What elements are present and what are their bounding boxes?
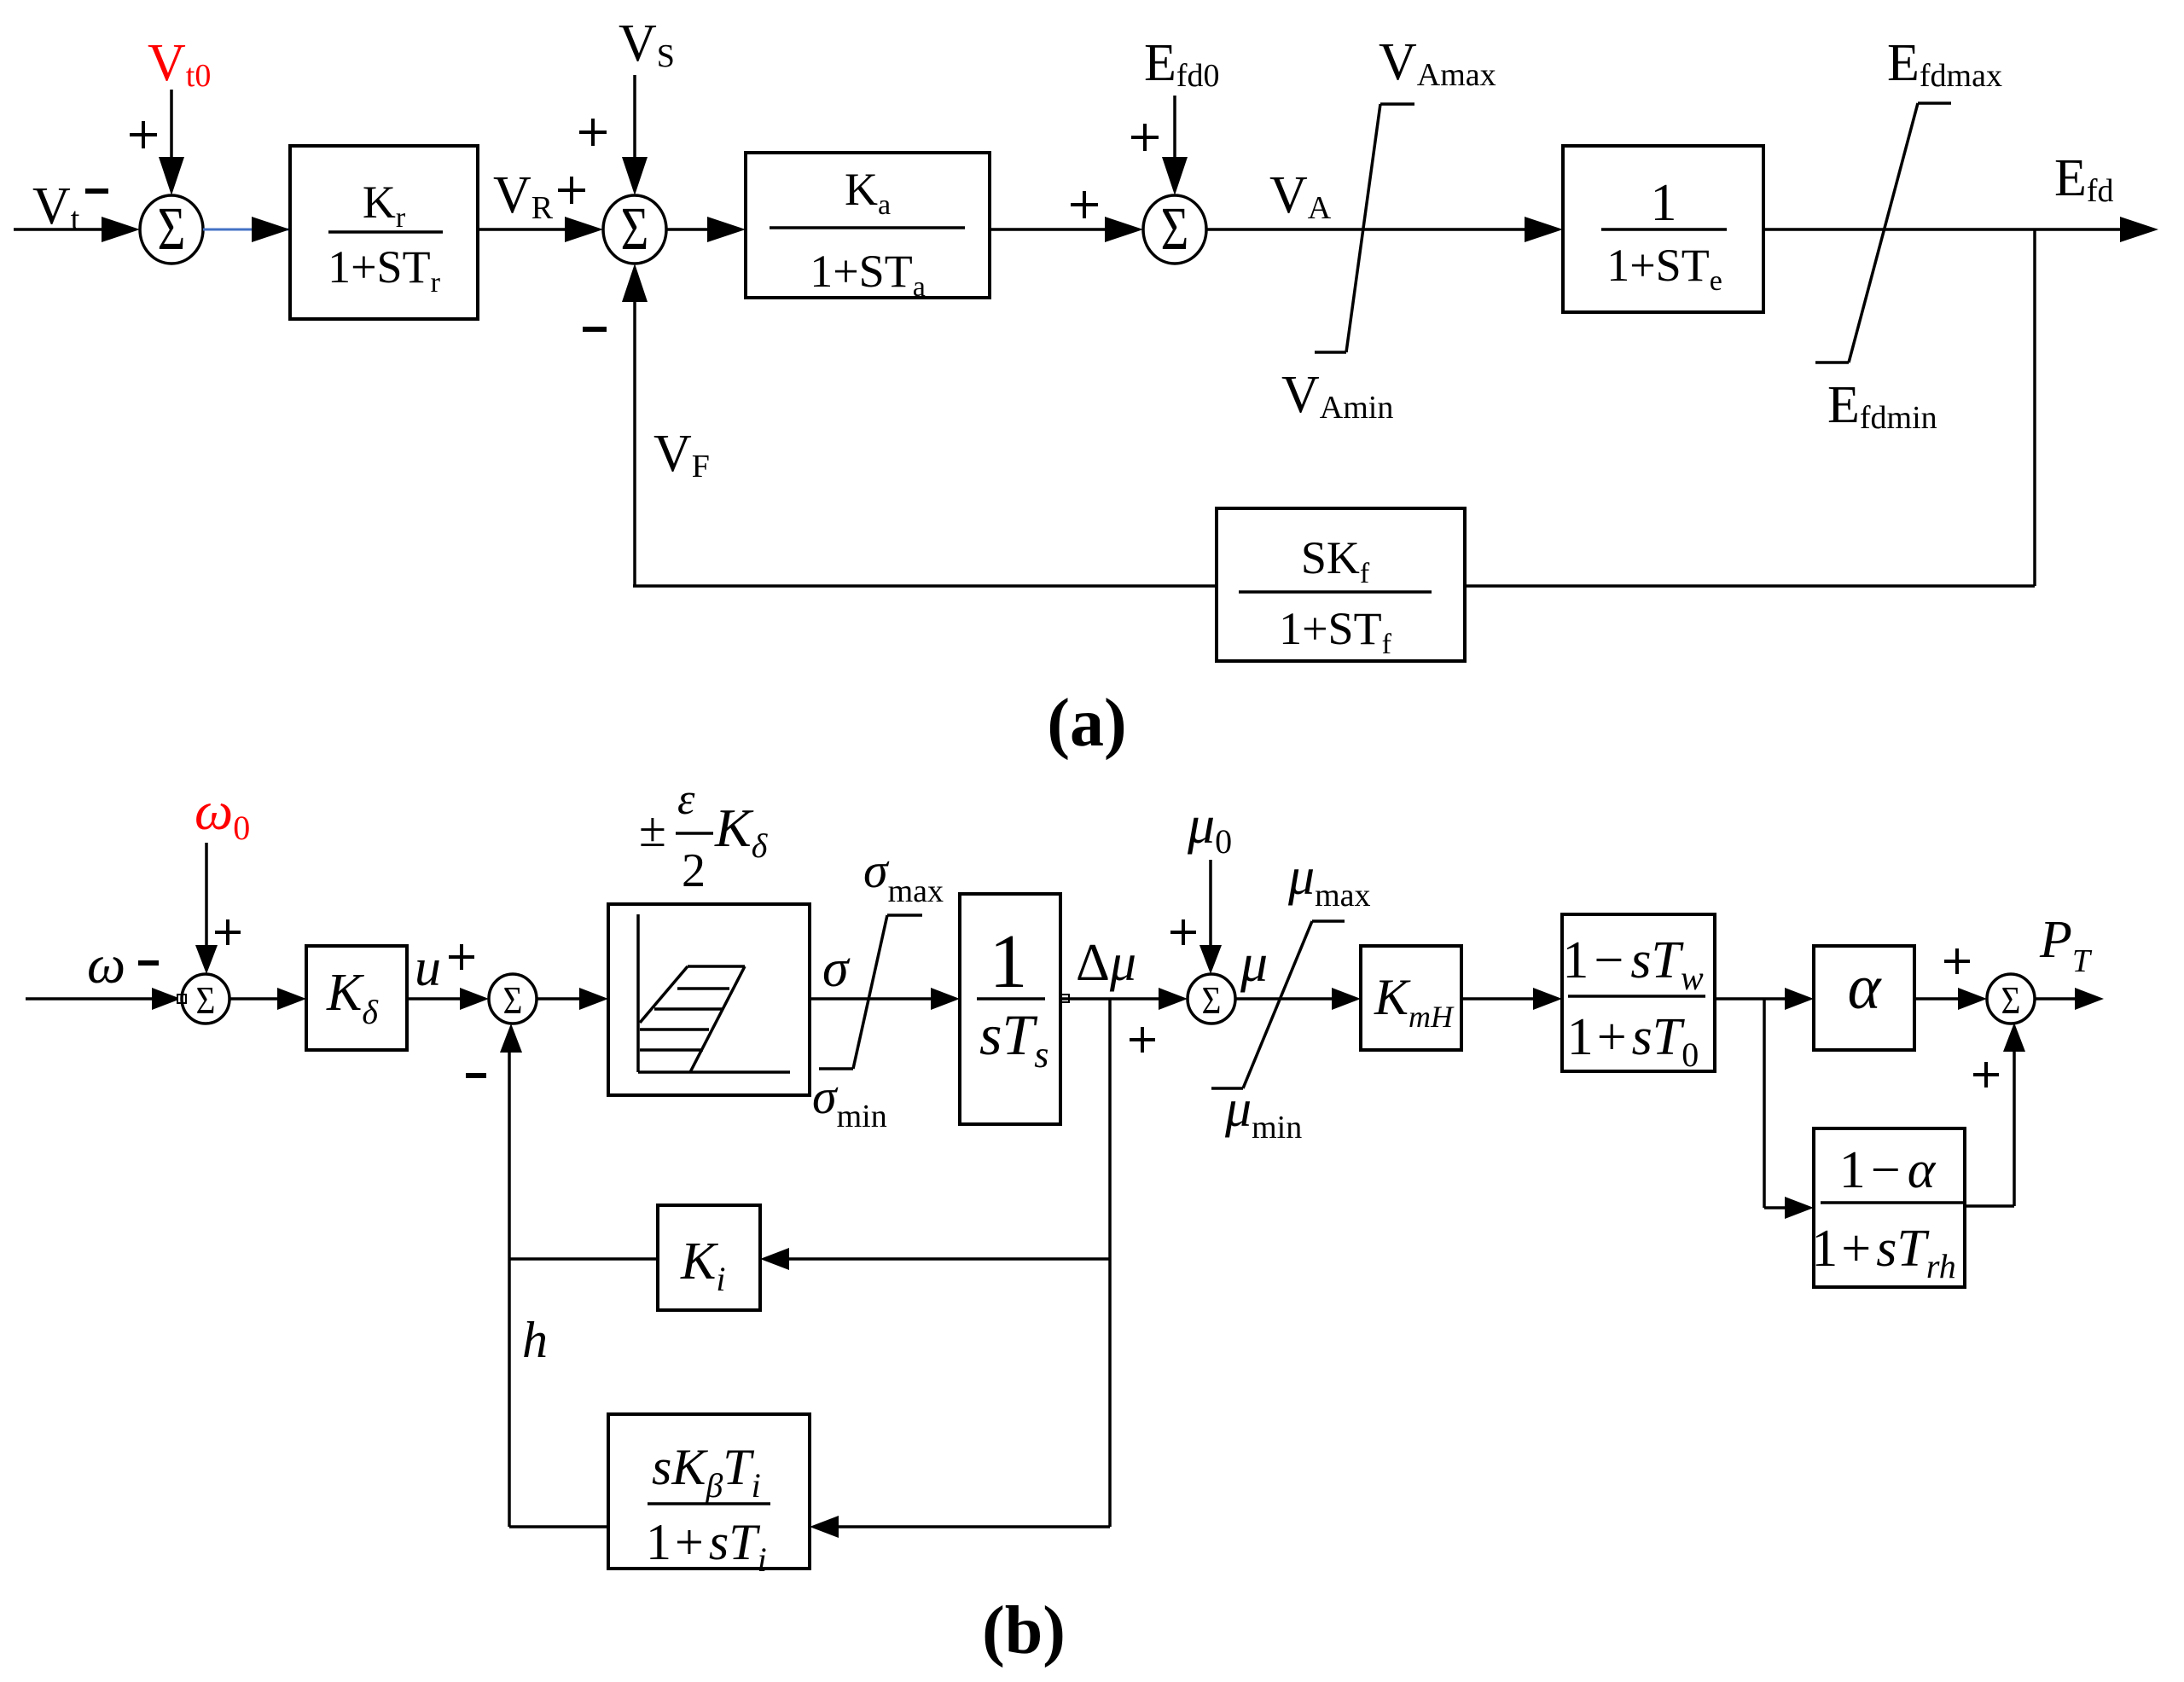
wire KmH to Tw block (1461, 988, 1562, 1010)
node label u (415, 939, 441, 997)
sign minus (h feedback input) (466, 1073, 486, 1078)
sign plus (omega0 input) (215, 919, 241, 945)
svg-text:Σ: Σ (196, 979, 216, 1023)
svg-text:α: α (1848, 953, 1883, 1023)
svg-text:μ: μ (1240, 932, 1268, 993)
sign plus (delta-mu input) (1130, 1027, 1155, 1053)
wire output PT (2035, 988, 2104, 1010)
summer S3b (1188, 974, 1235, 1024)
wire takeoff down from Efd line (2033, 229, 2036, 586)
limiter Efd (saturation symbol) (1815, 103, 1951, 362)
block deadband quantizer (608, 904, 810, 1095)
wire Vt0 into S1 (159, 90, 184, 195)
wire sKbTi output to left vertical (509, 1525, 608, 1528)
sign minus (Vt input) (85, 188, 108, 194)
block 1/(1+STe) (1563, 146, 1763, 312)
svg-text:1+sT0: 1+sT0 (1567, 1008, 1699, 1074)
svg-text:Σ: Σ (2001, 979, 2021, 1023)
wire left vertical feedback up into S2b (500, 1024, 522, 1527)
sign minus (omega input) (138, 960, 159, 966)
wire 1/(1+STe) to output Efd (1763, 217, 2158, 242)
svg-text:h: h (522, 1312, 548, 1368)
wire Ka to S3 (990, 217, 1143, 242)
node label mu max (1287, 848, 1371, 913)
node label VAmin (1281, 366, 1393, 426)
node label sigma max (863, 843, 944, 909)
svg-text:1: 1 (1651, 174, 1677, 232)
wire S2 to block Ka (666, 217, 746, 242)
wire lower feedback line from takeoff (810, 1516, 1110, 1538)
node label Efd (2054, 149, 2114, 209)
wire Tw block to alpha block (1715, 988, 1814, 1010)
wire Kr to S2, node VR (478, 217, 603, 242)
sign plus (mu0 input) (1170, 919, 1196, 945)
wire 1-alpha block to S4b (1965, 1023, 2025, 1206)
svg-text:σ: σ (822, 940, 851, 998)
svg-text:Σ: Σ (621, 194, 649, 262)
sign plus (Efd0 input) (1131, 124, 1159, 151)
node label omega0 (red) (195, 780, 250, 847)
limiter VA (saturation symbol) (1315, 104, 1414, 352)
node label VA (1269, 166, 1332, 226)
node label VR (493, 166, 554, 226)
block Ka/(1+STa) (746, 153, 990, 303)
node label PT (2039, 911, 2093, 979)
wire feedback left segment to VF corner (633, 584, 1217, 588)
block SKf/(1+STf) (1217, 508, 1465, 661)
label (a) (1047, 686, 1126, 761)
svg-text:Σ: Σ (1202, 979, 1222, 1023)
node label mu min (1224, 1080, 1302, 1145)
wire alpha to S4b (1914, 988, 1987, 1010)
wire Ki output to left vertical (509, 1257, 658, 1261)
block sKbTi/(1+sTi) (608, 1414, 810, 1579)
node label mu0 (1187, 794, 1232, 861)
block Ki (658, 1205, 760, 1310)
wire Efd0 into S3 (1162, 96, 1188, 195)
junction square after 1/sTs (1061, 995, 1069, 1002)
wire input Vt (14, 217, 140, 242)
block (1-alpha)/(1+sTrh) (1811, 1128, 1965, 1287)
block (1-sTw)/(1+sT0) (1562, 914, 1715, 1074)
node label Efdmin (1827, 376, 1937, 436)
svg-text:SKf: SKf (1301, 532, 1370, 589)
node label VS (619, 14, 675, 74)
wire VF feedback up into S2 (622, 264, 648, 586)
svg-text:1+STe: 1+STe (1606, 240, 1722, 297)
wire feedback right segment to SKf block (1465, 584, 2035, 588)
sign minus (VF feedback input) (583, 327, 607, 332)
sign plus (alpha output) (1944, 948, 1970, 974)
svg-text:Δμ: Δμ (1076, 934, 1136, 992)
svg-text:1: 1 (990, 919, 1028, 1004)
node label VAmax (1379, 33, 1496, 93)
svg-text:Σ: Σ (503, 979, 523, 1023)
svg-text:Σ: Σ (158, 194, 186, 262)
svg-text:1−α: 1−α (1839, 1141, 1937, 1199)
svg-text:2: 2 (682, 844, 706, 897)
svg-text:ω: ω (87, 934, 125, 995)
node label Vt0 (red) (148, 34, 211, 94)
sign plus (VR input) (558, 177, 585, 204)
svg-text:1+STa: 1+STa (810, 246, 926, 303)
wire S3b to KmH, node mu (1235, 988, 1361, 1010)
node label sigma min (812, 1069, 887, 1134)
wire S3 to block 1/(1+STe), node VA (1206, 217, 1563, 242)
limiter sigma (saturation symbol) (819, 915, 922, 1069)
junction square at S1b (177, 995, 186, 1003)
wire Kdelta to S2b, node u (408, 988, 489, 1010)
svg-text:1+STr: 1+STr (328, 241, 440, 299)
wire takeoff down to 1-alpha block (1764, 999, 1814, 1219)
block alpha (1814, 946, 1914, 1050)
node label Vt (32, 177, 80, 237)
node label h (522, 1312, 548, 1368)
node label VF (653, 425, 710, 484)
wire S2b to deadband block (537, 988, 608, 1010)
sign plus (Ka output into S3) (1071, 191, 1098, 218)
sign plus (Vt0 input) (130, 121, 157, 148)
wire S1b to block Kdelta (229, 988, 306, 1010)
wire deadband to 1/sTs, node sigma (810, 988, 960, 1010)
wire 1/sTs to S3b, node delta-mu (1060, 988, 1188, 1010)
wire Ki feedback line from takeoff (760, 1248, 1110, 1270)
node label sigma (822, 940, 851, 998)
sign plus (1-alpha feedback input) (1973, 1062, 1999, 1087)
limiter mu (saturation symbol) (1211, 921, 1345, 1088)
summer S1 (140, 194, 203, 264)
sign plus (VS input) (579, 119, 607, 146)
block Kdelta (306, 946, 407, 1050)
svg-text:Σ: Σ (1161, 194, 1189, 262)
block Kr/(1+STr) (290, 146, 478, 319)
wire omega0 into S1b (195, 843, 218, 974)
label (b) (982, 1593, 1066, 1668)
svg-text:ε: ε (677, 775, 695, 824)
node label delta-mu (1076, 934, 1136, 992)
label +-eps/2 Kdelta (639, 775, 769, 897)
svg-text:±: ± (639, 802, 666, 857)
node label mu (1240, 932, 1268, 993)
node label Efdmax (1887, 34, 2002, 94)
wire VS into S2 (622, 75, 648, 195)
wire takeoff down from delta-mu (1108, 999, 1112, 1527)
wire S1 to block Kr (blue) (203, 217, 290, 242)
node label omega (87, 934, 125, 995)
block KmH (1361, 946, 1461, 1050)
svg-text:(b): (b) (982, 1593, 1066, 1668)
wire input omega (26, 988, 181, 1010)
summer S2 (603, 194, 666, 264)
svg-text:1+STf: 1+STf (1279, 603, 1391, 660)
summer S1b (182, 974, 229, 1024)
summer S2b (489, 974, 537, 1024)
svg-text:u: u (415, 939, 441, 997)
block 1/sTs (960, 894, 1060, 1124)
summer S4b (1987, 974, 2035, 1024)
svg-text:(a): (a) (1047, 686, 1126, 761)
summer S3 (1143, 194, 1206, 264)
wire mu0 into S3b (1199, 860, 1222, 974)
sign plus (u input) (449, 944, 474, 970)
node label Efd0 (1144, 34, 1220, 94)
